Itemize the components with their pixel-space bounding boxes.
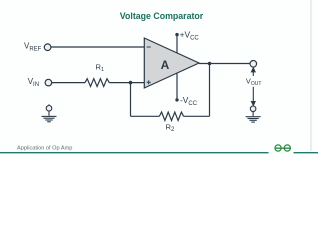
svg-text:Application of Op Amp: Application of Op Amp	[17, 146, 72, 152]
svg-text:Voltage Comparator: Voltage Comparator	[120, 11, 204, 21]
svg-text:A: A	[161, 58, 170, 72]
